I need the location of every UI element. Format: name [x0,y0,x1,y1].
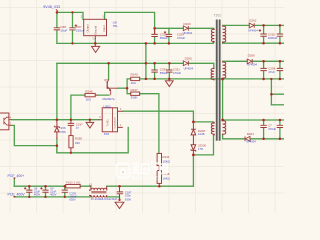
svg-text:10uF: 10uF [60,29,67,33]
wire gnd stub rail79 [168,79,170,81]
wire S2 top rail [223,60,284,62]
wire cap B1 leads [154,63,156,79]
label R240 1K0 [131,73,139,85]
label R248 10K [163,172,171,180]
capacitor C197 [68,120,74,136]
svg-text:630V: 630V [125,197,131,201]
wire output branch y104.8 [271,104,284,106]
label C88 10uF [60,25,67,32]
diode D206 [247,59,252,64]
label D202 UF4004 [248,19,258,33]
svg-text:1K2: 1K2 [86,97,92,101]
regulator pin numbers [81,15,105,41]
IC U201 TL431 [99,108,123,132]
TL431 pin numbers [99,107,122,127]
svg-text:550uF: 550uF [160,71,168,75]
net label 9V48_V33 [43,5,60,11]
label C331 470uF [173,68,181,75]
svg-text:TL431: TL431 [107,119,110,127]
wire opto pin3 route [11,125,57,145]
film capacitor C239 [62,190,68,192]
transformer core T201 [216,20,221,141]
svg-text:PCF_400V: PCF_400V [8,193,26,197]
wire cap A2 leads [168,28,170,43]
label U201 TL431 [103,104,111,136]
svg-text:D204: D204 [247,132,255,136]
secondary winding S1 [223,25,226,42]
svg-text:P10: P10 [104,132,110,136]
wire primary P3 top [193,121,212,123]
label R298 430 [75,137,82,146]
svg-text:TL431ACLP: TL431ACLP [113,117,116,129]
label C329 470uF [177,33,185,40]
wire S3 edge cap leads [279,120,281,139]
TL431 internal text [107,117,117,129]
diode D204 [245,136,250,141]
common mode choke L2 [89,186,107,197]
svg-text:550uF: 550uF [160,36,168,40]
wire S1 bottom rail [223,42,284,43]
resistor R246 [85,93,98,96]
svg-text:430: 430 [75,141,80,145]
svg-text:T201: T201 [214,13,222,17]
wire R240 right junction [140,43,146,79]
resistor R247 [131,92,140,95]
label R247 330K [131,88,139,100]
capacitor S1 edge [277,34,283,36]
wire S2 to S3 series link [222,79,224,120]
label JZ206 TVS [198,144,206,152]
ground rail79 [165,81,173,87]
wire Q5 emitter to R246 [71,95,109,120]
label U8 78L [113,20,118,28]
wire cap A1 leads [154,28,156,43]
svg-text:R246: R246 [85,89,93,93]
capacitor C328 (A1) [151,29,157,37]
svg-text:D206: D206 [248,54,256,58]
transistor Q5 2N2907 [107,80,118,96]
resistor chain R244 [157,153,161,165]
fusible resistor F102 [66,185,81,188]
wire PCF_400+ stub [13,178,15,186]
svg-text:Q5: Q5 [104,78,108,82]
wire cap B2 leads [168,63,170,79]
wire rail y63.3 [57,63,214,67]
svg-text:R298: R298 [75,137,82,141]
capacitor C330 (B1) [151,70,157,72]
capacitor C331 (B2) [166,70,172,72]
ground under regulator [92,46,100,52]
wire gnd stub rail119 [89,120,91,123]
wire zener column [56,63,58,153]
svg-text:MYDIGIT.NET: MYDIGIT.NET [132,176,161,181]
net label PCF_400+ [8,174,25,179]
bulk capacitor U4 [40,187,48,192]
resistor R240 [131,77,140,80]
svg-text:F102 1 KΩ: F102 1 KΩ [66,180,81,184]
capacitor C208 [260,68,266,70]
primary winding P2 [211,68,214,81]
svg-text:330n: 330n [125,194,131,198]
label C197 1n [76,122,83,129]
svg-text:220uF: 220uF [76,29,85,33]
label U4 22uF 400V [50,186,56,196]
resistor R298 [69,136,73,153]
label C328 550uF [160,33,168,40]
wire bulk cap1 leads [28,186,30,197]
svg-text:330K: 330K [131,96,138,100]
svg-text:400V: 400V [50,193,56,197]
svg-text:UF4004: UF4004 [248,28,258,32]
capacitor S3 edge [277,125,283,127]
svg-text:10KΩ: 10KΩ [163,159,171,163]
svg-text:Ground: Ground [94,25,98,34]
wire R247 to resistor chain [140,94,159,154]
wire Q5 base [118,87,127,89]
svg-text:D202: D202 [249,19,257,23]
svg-text:47uF: 47uF [268,70,275,74]
wire S2 edge cap leads [279,61,281,79]
wire bulk cap3 leads [64,186,66,197]
capacitor C220 [259,29,267,36]
wire base divider column [127,79,131,94]
wire aux1 rectifier rail y28.3 [155,27,214,29]
opto pin numbers [10,116,12,126]
ground rail119 [86,122,94,128]
label R244 10K [163,155,171,163]
wire primary P3 bottom loop [193,135,213,155]
wire PCF_400V stub [13,195,15,198]
capacitor C187 [117,186,123,200]
svg-text:FC-4012E8-9-9x4x10uH: FC-4012E8-9-9x4x10uH [91,198,118,201]
wire bulk cap2 leads [45,186,47,197]
wire feedback rail y152.8 [57,127,128,152]
primary winding P3 [211,122,214,135]
ground C187 [115,202,124,208]
label C210 470uF [268,124,276,132]
svg-text:2N2907a: 2N2907a [102,97,115,101]
wire S2 cap leads [263,61,265,79]
svg-text:9V48_V33: 9V48_V33 [43,5,60,9]
svg-text:U201: U201 [103,104,111,108]
wire mains rail1 y186.2 [14,185,193,187]
svg-text:D203: D203 [184,22,192,26]
svg-text:PCF_400+: PCF_400+ [8,174,25,178]
bulk capacitor U6 [24,187,32,192]
svg-text:470uF: 470uF [268,127,276,131]
label zener 9V6 P6K [61,126,67,134]
diode D202 [249,23,254,28]
label C208 47uF [268,67,275,75]
capacitor C88 [54,28,60,30]
wire C88 column [56,12,58,43]
svg-text:R240: R240 [131,73,139,77]
svg-text:78L: 78L [113,24,118,28]
optocoupler U9 phototransistor [0,113,11,130]
wire ground rail y78.9 [146,78,284,80]
svg-text:Output: Output [85,24,89,32]
capacitor C329 (A2) [164,31,172,36]
diode D203 aux1 [183,26,188,31]
label D203 UF4004 [183,22,193,35]
wire TL431 cathode to snubber [123,111,194,122]
label D204 UF4004 [246,132,256,144]
wire net 9V48_V33 top rail [57,12,83,19]
snubber TVS JZ206 [191,145,196,155]
wire regulator ground stub [94,39,96,46]
diode D205 aux2 [183,61,188,66]
wire C220 leads [263,25,265,43]
label C87 220uF [76,25,85,32]
svg-text:470uF: 470uF [173,71,181,75]
wire S1 top rail [223,24,284,26]
svg-text:1K0: 1K0 [131,81,137,85]
svg-text:UF4004: UF4004 [247,63,257,67]
label C187 330n 630V [125,191,132,202]
svg-text:UF4004: UF4004 [183,31,193,35]
net label PCF_400V [8,193,26,198]
label C330 550uF [160,68,168,75]
zener diode 9V6 [54,120,59,139]
resistor chain R248 [157,166,161,187]
wire regulator input rail [105,12,155,27]
wire mains rail2 y196.9 [14,197,119,199]
wire S3 bottom rail [223,134,284,139]
label D205 UF4004 [184,56,194,70]
label U6 22uF 400V [34,186,40,196]
primary winding P1 [211,28,214,42]
wire S3 cap leads [263,120,265,139]
svg-text:UF4004: UF4004 [184,67,194,71]
wire opto pin4 rail y119.7 [11,119,98,121]
label R246 1K2 [85,89,93,101]
svg-text:400V: 400V [34,193,40,197]
regulator pin names [85,24,105,35]
secondary winding S2 [223,61,226,78]
voltage regulator U8 [84,19,107,39]
svg-text:470uF: 470uF [177,36,185,40]
label Q5 2N2907a [102,78,115,101]
capacitor S2 edge [277,68,283,70]
svg-text:P6K: P6K [61,130,67,134]
wire aux ground rail y43.4 [57,41,213,43]
svg-text:10KΩ: 10KΩ [163,176,171,180]
svg-text:L2: L2 [89,182,93,186]
svg-text:178: 178 [198,147,203,151]
wire snubber bottom to rail [192,155,194,186]
label D206 UF4004 [247,54,257,67]
svg-text:1n: 1n [76,126,80,130]
svg-text:UF4004: UF4004 [246,140,256,144]
capacitor C210 [260,125,266,127]
label D208 4148 [198,129,205,136]
secondary winding S3 [223,120,226,135]
svg-text:Input: Input [102,25,106,31]
svg-text:1000uF: 1000uF [268,36,278,40]
label C220 1000uF [268,32,278,40]
svg-text:630V: 630V [69,198,75,202]
watermark mydigit [117,163,168,180]
svg-text:D205: D205 [185,56,193,60]
wire S3 top rail [223,119,284,121]
svg-text:4148: 4148 [198,132,205,136]
capacitor C87 [69,24,77,30]
snubber diode D208 [191,122,196,145]
wire C87 column [72,12,74,43]
svg-text:R247: R247 [131,88,139,92]
label C239 100nF 630V [69,191,77,201]
wire Q5 collector [108,63,110,79]
wire output branch y94 [271,79,284,105]
wire S1 edge cap leads [279,25,281,43]
